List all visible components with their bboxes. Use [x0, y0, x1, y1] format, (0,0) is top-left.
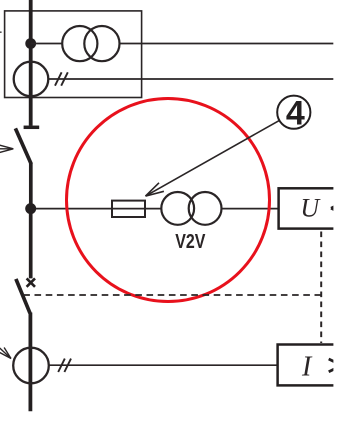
wire node to VT T1	[31, 43, 63, 45]
relay box I> (overcurrent)	[278, 345, 338, 386]
actuate arrow at disconnector	[0, 148, 13, 150]
actuate arrow at CT T3	[0, 342, 11, 359]
node (junction dot, feeder tap)	[25, 203, 36, 214]
wire TV to relay U box	[221, 208, 278, 210]
label < (clipped)	[331, 203, 338, 208]
wire node to fuse	[36, 208, 162, 210]
secondary-winding slashes // on CT wire	[55, 72, 62, 85]
circuit breaker QF1 contact mark x	[27, 278, 35, 286]
svg-text:U: U	[300, 194, 321, 223]
secondary-winding slashes // on bottom wire	[58, 359, 65, 372]
svg-text:4: 4	[286, 94, 305, 132]
wire VT T1 to right edge	[120, 43, 334, 45]
node (junction dot on busbar, top)	[25, 38, 36, 49]
highlight circle (red)	[67, 99, 270, 302]
disconnector QS1 fixed contact (T-bar)	[24, 126, 40, 130]
label > (clipped)	[329, 359, 338, 365]
cut-off mark at left margin	[0, 31, 2, 33]
current transformer T2 (circle on busbar)	[14, 62, 49, 97]
wire CT T2 secondary to right edge	[48, 78, 333, 80]
voltage transformer T1 (two overlapping circles)	[62, 26, 97, 61]
dashed control link breaker to relays	[23, 294, 321, 296]
dashed link U box down	[320, 232, 322, 344]
wire blade to node	[29, 163, 33, 209]
callout circle 4	[277, 96, 310, 129]
circuit breaker QF1 blade	[16, 279, 30, 313]
wire CT T3 secondary to relay I box	[49, 364, 278, 366]
voltage transformer TV (two overlapping circles) V2V	[161, 192, 194, 225]
relay box U< (undervoltage)	[279, 188, 338, 228]
disconnector QS1 blade	[15, 128, 31, 164]
wire blade to CT T3 and through to line end	[28, 313, 32, 412]
wire node down to breaker	[29, 209, 33, 278]
current transformer T3 (circle on line, bottom)	[13, 348, 49, 384]
svg-text:I: I	[301, 352, 313, 383]
fuse FU1	[112, 201, 145, 217]
callout leader line from circled 4	[146, 120, 280, 196]
svg-text:V2V: V2V	[175, 229, 206, 252]
busbar (thick vertical line)	[29, 0, 33, 126]
leader open arrowhead	[146, 191, 164, 196]
instrument bay box (top left)	[5, 11, 142, 98]
